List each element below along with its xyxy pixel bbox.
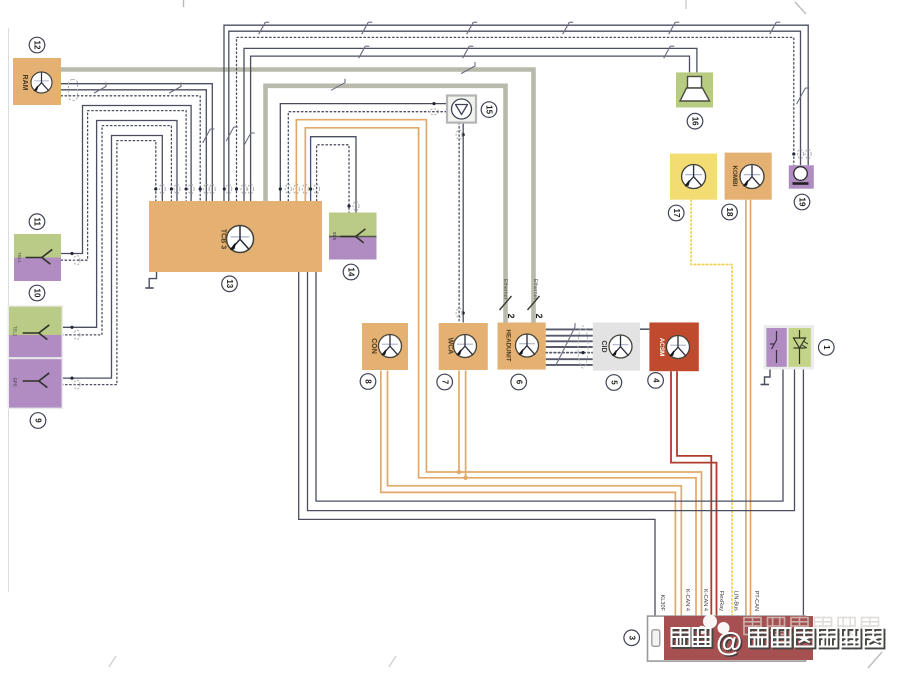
svg-text:TEL2: TEL2 <box>13 326 18 337</box>
svg-text:4: 4 <box>651 378 660 383</box>
svg-text:CON: CON <box>370 338 377 354</box>
svg-text:19: 19 <box>798 198 807 207</box>
svg-text:18: 18 <box>725 208 734 217</box>
svg-text:11: 11 <box>33 217 42 226</box>
svg-text:8: 8 <box>364 379 373 384</box>
svg-text:CID: CID <box>600 340 607 352</box>
svg-text:ACSM: ACSM <box>658 338 665 357</box>
svg-text:1: 1 <box>822 345 831 350</box>
svg-text:RAM: RAM <box>21 75 28 91</box>
svg-text:2: 2 <box>534 313 544 318</box>
svg-text:@: @ <box>716 627 742 657</box>
svg-text:3: 3 <box>627 636 636 641</box>
svg-text:14: 14 <box>347 268 356 277</box>
svg-text:15: 15 <box>485 105 494 114</box>
svg-text:9: 9 <box>34 418 43 423</box>
svg-text:Ethernet: Ethernet <box>532 279 538 300</box>
svg-text:5: 5 <box>610 380 619 385</box>
svg-text:LIN-Bus: LIN-Bus <box>732 591 738 611</box>
svg-text:16: 16 <box>691 117 700 126</box>
svg-text:KL30F: KL30F <box>659 595 665 612</box>
svg-text:6: 6 <box>514 380 523 385</box>
svg-text:HEADUNIT: HEADUNIT <box>504 330 511 362</box>
svg-text:PT-CAN: PT-CAN <box>753 590 759 611</box>
svg-text:K-CAN 4: K-CAN 4 <box>684 589 690 611</box>
svg-text:2: 2 <box>506 313 516 318</box>
svg-text:10: 10 <box>33 289 42 298</box>
svg-text:TCB 3: TCB 3 <box>220 229 227 249</box>
svg-text:KOMBI: KOMBI <box>731 166 738 187</box>
svg-text:7: 7 <box>440 380 449 385</box>
svg-text:SDS: SDS <box>332 232 337 241</box>
svg-text:13: 13 <box>225 279 234 288</box>
svg-text:TEL1: TEL1 <box>17 252 22 263</box>
svg-text:FlexRay: FlexRay <box>718 590 724 611</box>
svg-text:17: 17 <box>672 209 681 218</box>
svg-text:WCA: WCA <box>447 338 454 355</box>
svg-text:Ethernet: Ethernet <box>502 279 508 300</box>
svg-text:12: 12 <box>33 41 42 50</box>
svg-text:K-CAN 4: K-CAN 4 <box>702 589 708 611</box>
svg-text:GPS: GPS <box>13 377 18 386</box>
